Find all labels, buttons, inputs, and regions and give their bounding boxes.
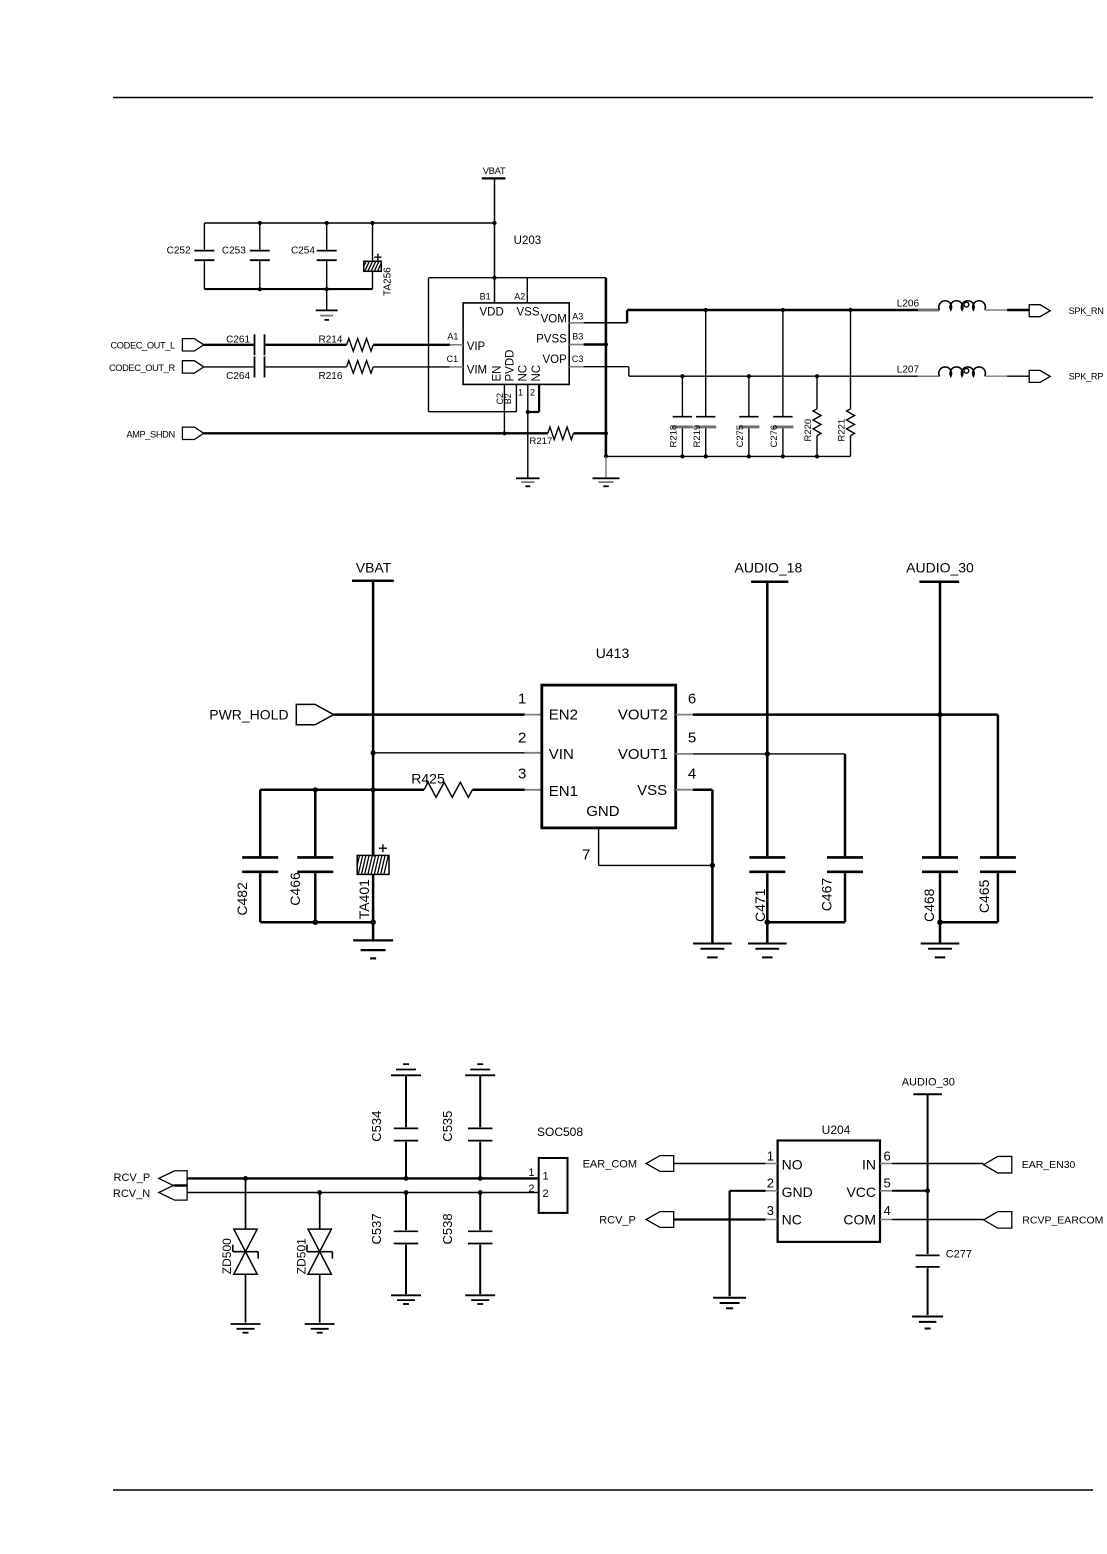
ground (ZD500) — [231, 1324, 261, 1333]
node VBAT-VSS-loop — [492, 276, 496, 280]
svg-text:IN: IN — [862, 1157, 876, 1173]
svg-text:R220: R220 — [803, 419, 814, 442]
node rail R220 — [815, 454, 819, 458]
svg-text:SPK_RN: SPK_RN — [1069, 306, 1104, 316]
capacitor C538 — [440, 1193, 492, 1295]
svg-text:C254: C254 — [291, 246, 315, 257]
wire PVSS stub — [569, 344, 606, 346]
node RCV_N C537 — [404, 1190, 409, 1195]
svg-text:C535: C535 — [440, 1111, 455, 1142]
inverted ground (C534) — [391, 1064, 421, 1127]
svg-text:C466: C466 — [287, 872, 303, 906]
svg-text:RCV_N: RCV_N — [113, 1188, 150, 1200]
svg-text:C3: C3 — [572, 354, 584, 364]
ground (C538) — [465, 1295, 495, 1304]
wire C468-C465 rail — [940, 921, 998, 924]
svg-text:3: 3 — [518, 766, 526, 783]
wire VBAT vertical — [494, 178, 496, 303]
inductor L207 — [897, 365, 1030, 377]
wire VSS bus to ground — [605, 456, 607, 478]
wire VOUT2 to C465 — [997, 715, 1000, 857]
port EAR_EN30 — [984, 1156, 1076, 1173]
svg-text:VOUT2: VOUT2 — [618, 707, 668, 724]
svg-text:RCV_P: RCV_P — [599, 1215, 636, 1227]
svg-text:EN: EN — [492, 366, 504, 382]
capacitor C465 — [976, 857, 1016, 922]
capacitor C254 — [291, 223, 337, 289]
capacitor C535 — [440, 1111, 492, 1179]
power symbol AUDIO_30 (U204) — [902, 1076, 955, 1094]
resistor R219 (cap symbol) — [692, 310, 716, 456]
svg-text:RCV_P: RCV_P — [114, 1172, 151, 1184]
svg-text:R218: R218 — [669, 425, 680, 448]
wire AUDIO_30 vertical (U204) — [927, 1094, 929, 1254]
wire C471-C467 rail — [767, 921, 845, 924]
node VOM-C276 — [781, 308, 785, 312]
op-amp U203 body — [463, 235, 569, 384]
node C471 rail — [765, 919, 771, 925]
svg-text:VIN: VIN — [549, 746, 574, 763]
port RCV_P (U204) — [599, 1212, 673, 1228]
svg-text:COM: COM — [843, 1212, 876, 1228]
capacitor C261 — [226, 334, 264, 355]
capacitor TA256 (tantalum) — [362, 223, 394, 296]
svg-text:TA256: TA256 — [383, 267, 394, 296]
wire top cap rail — [204, 222, 494, 224]
svg-text:EN2: EN2 — [549, 707, 578, 724]
node rail TA256 — [370, 221, 374, 225]
regulator U413 body — [542, 645, 676, 828]
svg-text:1: 1 — [518, 388, 523, 398]
wire RCV_N — [187, 1192, 539, 1194]
wire R216-VIM — [373, 366, 463, 368]
svg-text:C277: C277 — [946, 1248, 972, 1260]
ground (C468) — [921, 922, 960, 957]
wire PVDD loop left — [429, 278, 517, 412]
svg-text:CODEC_OUT_R: CODEC_OUT_R — [109, 363, 176, 373]
wire EAR_COM to NO — [674, 1163, 778, 1165]
wire bottom cap rail — [204, 288, 372, 290]
wire R214-VIP — [373, 344, 463, 346]
node rail R219 — [704, 454, 708, 458]
node R217-VSS bus — [604, 431, 608, 435]
svg-text:C465: C465 — [976, 879, 992, 913]
wire C264-R216 — [266, 366, 347, 368]
node VBAT-VIN — [371, 750, 376, 755]
svg-text:R214: R214 — [318, 335, 342, 346]
inverted ground (C535) — [465, 1064, 495, 1127]
svg-text:ZD500: ZD500 — [220, 1238, 234, 1274]
node NC join — [526, 410, 530, 414]
svg-text:6: 6 — [688, 690, 696, 707]
svg-text:L207: L207 — [897, 365, 920, 376]
node VBAT top-rail junction — [492, 221, 496, 225]
wire VOP route — [569, 367, 939, 377]
svg-text:6: 6 — [884, 1148, 891, 1163]
capacitor C252 — [167, 223, 215, 289]
resistor R221 — [837, 310, 855, 456]
svg-text:1: 1 — [518, 690, 526, 707]
svg-text:EN1: EN1 — [549, 783, 578, 800]
input port PWR_HOLD — [209, 704, 333, 724]
resistor R218 (cap symbol) — [669, 376, 693, 456]
node RCV_P ZD500 — [243, 1176, 248, 1181]
wire PWR_HOLD to EN2 — [334, 713, 542, 716]
port RCVP_EARCOM — [984, 1212, 1104, 1229]
node VOM-R219 — [704, 308, 708, 312]
node VOUT1-AUDIO_18 — [765, 751, 770, 756]
ground (U204 GND) — [713, 1298, 746, 1309]
ground (TA401) — [353, 922, 393, 958]
U203 pin designators — [447, 292, 584, 405]
bottom border rule — [113, 1489, 1093, 1491]
svg-text:C1: C1 — [447, 354, 459, 364]
wire CODEC_OUT_L — [204, 344, 254, 346]
svg-text:A2: A2 — [514, 292, 525, 302]
input port AMP_SHDN — [126, 427, 203, 439]
node bottom rail C254 — [325, 287, 329, 291]
svg-text:R216: R216 — [318, 371, 342, 382]
svg-text:C482: C482 — [234, 882, 250, 916]
ground (C471) — [748, 922, 787, 957]
svg-text:VBAT: VBAT — [483, 165, 506, 176]
zener ZD500 — [220, 1178, 258, 1322]
capacitor C471 — [749, 857, 785, 922]
node rail C276 — [781, 454, 785, 458]
wire R217-VSSbus — [574, 432, 606, 434]
port RCV_N — [113, 1185, 187, 1200]
power symbol AUDIO_18 — [735, 560, 803, 582]
U413 pin numbers — [518, 690, 696, 863]
wire IN to EAR_EN30 — [880, 1163, 984, 1165]
node RCV_N C538 — [478, 1190, 483, 1195]
svg-text:VIP: VIP — [467, 341, 486, 353]
node rail R218 — [680, 454, 684, 458]
U204 pin numbers — [767, 1148, 891, 1218]
wire VCC to AUDIO_30 — [880, 1190, 928, 1192]
node rail C275 — [747, 454, 751, 458]
resistor R216 — [318, 361, 373, 382]
svg-text:A1: A1 — [447, 332, 458, 342]
ground (VSS bus) — [593, 478, 620, 486]
svg-text:NO: NO — [782, 1157, 803, 1173]
svg-text:C468: C468 — [921, 888, 937, 922]
wire VSS (U413) — [676, 790, 713, 944]
svg-text:VDD: VDD — [480, 306, 504, 318]
wire GND (U204) — [730, 1191, 778, 1297]
output port SPK_RN — [1029, 305, 1103, 317]
svg-text:GND: GND — [586, 803, 620, 820]
wire C261-R214 — [266, 344, 347, 346]
svg-text:R425: R425 — [411, 771, 445, 787]
svg-text:SOC508: SOC508 — [537, 1125, 583, 1139]
resistor R425 — [411, 771, 472, 798]
wire CODEC_OUT_R — [204, 366, 254, 368]
svg-text:VOUT1: VOUT1 — [618, 746, 668, 763]
zener ZD501 — [294, 1193, 332, 1323]
svg-text:TA401: TA401 — [356, 879, 372, 919]
wire A2-VSS loop — [429, 278, 606, 303]
svg-text:2: 2 — [518, 729, 526, 746]
svg-text:AUDIO_30: AUDIO_30 — [906, 560, 974, 576]
ground (C277) — [912, 1317, 943, 1329]
ground (U413 VSS) — [693, 944, 732, 958]
ground (NC) — [516, 478, 540, 486]
capacitor C277 — [916, 1248, 972, 1315]
capacitor C466 — [287, 790, 333, 922]
svg-text:7: 7 — [582, 847, 590, 864]
capacitor C534 — [369, 1111, 418, 1179]
svg-text:ZD501: ZD501 — [294, 1238, 308, 1274]
power symbol AUDIO_30 — [906, 560, 974, 582]
capacitor C253 — [222, 223, 270, 289]
svg-text:C471: C471 — [752, 888, 768, 922]
wire RCV_P — [187, 1177, 539, 1179]
svg-text:R219: R219 — [692, 425, 703, 448]
node RCV_N ZD501 — [317, 1190, 322, 1195]
ground (cap rail) — [316, 289, 338, 320]
node C468 rail — [937, 919, 943, 925]
capacitor C467 — [818, 857, 863, 922]
svg-text:B3: B3 — [572, 332, 583, 342]
svg-text:PWR_HOLD: PWR_HOLD — [209, 706, 288, 722]
node VSS bus bottom — [604, 454, 608, 458]
switch U204 body — [778, 1123, 880, 1242]
node rail TA401 bottom — [370, 919, 376, 925]
svg-text:1: 1 — [528, 1167, 534, 1179]
node RCV_P C534 — [404, 1176, 409, 1181]
U204 pin names — [782, 1157, 876, 1228]
svg-text:AUDIO_18: AUDIO_18 — [735, 560, 803, 576]
svg-text:2: 2 — [530, 388, 535, 398]
svg-text:VOM: VOM — [541, 313, 567, 325]
svg-text:C253: C253 — [222, 246, 246, 257]
svg-text:C534: C534 — [369, 1111, 384, 1142]
wire COM to RCVP_EARCOM — [880, 1219, 984, 1221]
svg-text:B1: B1 — [480, 292, 491, 302]
connector SOC508 — [528, 1125, 583, 1213]
svg-text:C261: C261 — [226, 335, 250, 346]
svg-text:GND: GND — [782, 1184, 813, 1200]
inductor L206 — [897, 299, 1030, 311]
svg-text:RCVP_EARCOM: RCVP_EARCOM — [1022, 1214, 1103, 1226]
svg-text:AUDIO_30: AUDIO_30 — [902, 1076, 955, 1088]
capacitor C276 — [769, 310, 793, 456]
svg-text:3: 3 — [767, 1203, 774, 1218]
node RCV_P C535 — [478, 1176, 483, 1181]
svg-text:VIM: VIM — [467, 364, 487, 376]
svg-text:C264: C264 — [226, 371, 250, 382]
svg-text:VCC: VCC — [846, 1184, 876, 1200]
svg-text:VOP: VOP — [543, 354, 568, 366]
power symbol VBAT (U203) — [482, 165, 506, 178]
svg-text:C252: C252 — [167, 246, 191, 257]
wire AMP_SHDN — [204, 432, 548, 434]
input port CODEC_OUT_R — [109, 361, 204, 373]
svg-text:L206: L206 — [897, 299, 920, 310]
wire VOM route — [569, 310, 939, 323]
svg-text:5: 5 — [688, 729, 696, 746]
node VOP-R220 — [815, 374, 819, 378]
svg-text:1: 1 — [767, 1148, 774, 1163]
wire NC to ground — [527, 412, 529, 478]
svg-text:4: 4 — [884, 1203, 891, 1218]
svg-text:VBAT: VBAT — [356, 560, 392, 576]
svg-text:VSS: VSS — [637, 782, 667, 799]
svg-text:R217: R217 — [529, 436, 552, 447]
svg-text:C537: C537 — [369, 1213, 384, 1244]
svg-text:2: 2 — [767, 1176, 774, 1191]
output port SPK_RP — [1029, 370, 1103, 382]
svg-text:U203: U203 — [514, 235, 542, 247]
net VSS vertical bus — [605, 278, 608, 457]
wire VOUT1 to C467 — [844, 754, 847, 856]
svg-text:EAR_EN30: EAR_EN30 — [1022, 1159, 1076, 1171]
svg-text:5: 5 — [884, 1176, 891, 1191]
capacitor C468 — [921, 857, 958, 922]
wire R425-EN1 — [472, 789, 541, 792]
svg-text:C275: C275 — [735, 425, 746, 448]
svg-text:C538: C538 — [440, 1213, 455, 1244]
svg-text:R221: R221 — [837, 419, 848, 442]
node rail C254 — [325, 221, 329, 225]
svg-text:PVDD: PVDD — [505, 350, 517, 382]
node VCC-AUDIO_30 — [925, 1188, 930, 1193]
wire EN1 left rail — [260, 789, 424, 792]
svg-text:CODEC_OUT_L: CODEC_OUT_L — [110, 341, 175, 351]
power symbol VBAT (U413) — [352, 560, 394, 581]
resistor R214 — [318, 335, 373, 352]
svg-text:NC: NC — [782, 1212, 802, 1228]
svg-text:U413: U413 — [596, 645, 630, 661]
resistor R220 — [803, 376, 821, 456]
wire VOUT1 — [676, 753, 845, 755]
U413 pin names — [549, 707, 668, 820]
wire AUDIO_18 vertical — [766, 582, 769, 856]
capacitor C537 — [369, 1193, 418, 1295]
node rail C466 — [313, 787, 318, 792]
capacitor C275 — [735, 376, 759, 456]
svg-text:PVSS: PVSS — [536, 334, 567, 346]
input port CODEC_OUT_L — [110, 339, 203, 351]
capacitor C264 — [226, 356, 264, 382]
pin stub NC1 down — [527, 384, 529, 412]
wire VOUT2 — [676, 714, 998, 716]
node rail C253 — [258, 221, 262, 225]
pin stub EN down — [503, 384, 505, 433]
wire GND pin7 — [599, 828, 713, 866]
node VOP-C275 — [747, 374, 751, 378]
capacitor C482 — [234, 790, 278, 922]
node GND-VSS join — [710, 863, 715, 868]
svg-text:NC: NC — [518, 365, 530, 382]
svg-text:4: 4 — [688, 766, 696, 783]
wire VBAT vertical (U413) — [372, 581, 375, 857]
svg-text:SPK_RP: SPK_RP — [1069, 372, 1104, 382]
wire filter ground rail — [606, 455, 851, 457]
svg-text:A3: A3 — [572, 311, 583, 321]
node VBAT-EN1 rail — [371, 787, 376, 792]
ground (C537) — [391, 1295, 421, 1304]
node EN-AMP_SHDN — [502, 431, 506, 435]
ground (ZD501) — [305, 1324, 335, 1333]
svg-text:C467: C467 — [818, 878, 834, 912]
resistor R217 — [529, 427, 573, 447]
node rail C466 bottom — [313, 919, 319, 925]
svg-text:NC: NC — [531, 365, 543, 382]
node bottom rail C253 — [258, 287, 262, 291]
svg-text:2: 2 — [528, 1183, 534, 1195]
wire AUDIO_30 vertical — [939, 582, 942, 856]
port RCV_P — [114, 1171, 188, 1186]
svg-text:1: 1 — [543, 1170, 549, 1182]
svg-text:VSS: VSS — [517, 306, 540, 318]
pin stub NC2 down — [528, 384, 539, 412]
port EAR_COM — [583, 1156, 674, 1172]
svg-text:AMP_SHDN: AMP_SHDN — [126, 429, 174, 439]
node PVSS stub — [604, 342, 608, 346]
svg-text:2: 2 — [543, 1188, 549, 1200]
wire RCV_P to NC — [674, 1218, 778, 1220]
node VOM-R221 — [848, 308, 852, 312]
wire decoupling ground rail — [260, 921, 373, 924]
node VOUT2-AUDIO_30 — [937, 712, 942, 717]
svg-text:U204: U204 — [822, 1123, 851, 1137]
svg-text:C276: C276 — [769, 425, 780, 448]
U203 pin names — [467, 306, 567, 381]
node VOP-R218 — [680, 374, 684, 378]
svg-text:EAR_COM: EAR_COM — [583, 1159, 637, 1171]
capacitor TA401 (tantalum) — [355, 790, 389, 922]
top border rule — [113, 97, 1093, 99]
wire VIN — [373, 752, 542, 754]
